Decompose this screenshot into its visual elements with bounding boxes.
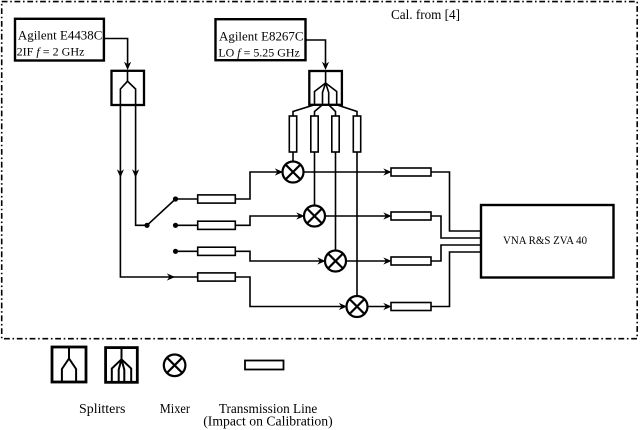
svg-text:Cal. from [4]: Cal. from [4] (391, 8, 460, 23)
svg-text:Agilent E8267C: Agilent E8267C (219, 29, 304, 44)
svg-text:(Impact on Calibration): (Impact on Calibration) (203, 415, 333, 430)
svg-text:Mixer: Mixer (160, 402, 190, 417)
svg-text:Agilent E4438C: Agilent E4438C (18, 28, 103, 43)
svg-text:LO f = 5.25 GHz: LO f = 5.25 GHz (218, 45, 299, 59)
svg-text:VNA R&S ZVA 40: VNA R&S ZVA 40 (503, 235, 587, 247)
svg-text:2IF f = 2 GHz: 2IF f = 2 GHz (17, 44, 85, 58)
svg-text:Splitters: Splitters (79, 402, 125, 417)
